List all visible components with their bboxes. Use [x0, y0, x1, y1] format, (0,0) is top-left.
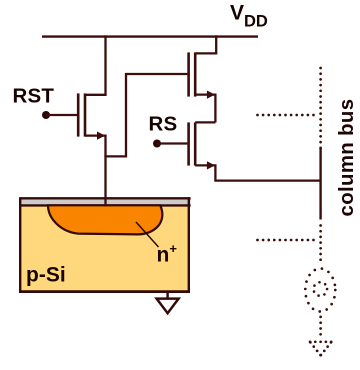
current source I_bias outer dotted circle: [305, 269, 335, 312]
transistor M3 gate bar: [187, 122, 190, 165]
dotted row wire (upper): [258, 114, 320, 117]
substrate left border: [19, 197, 21, 292]
transistor M2 (source follower) gate bar: [187, 52, 190, 96]
wire: rail to M1 drain: [85, 35, 106, 94]
VDD rail: [42, 35, 258, 37]
svg-text:RS: RS: [149, 113, 178, 136]
svg-text:p-Si: p-Si: [26, 264, 66, 287]
column bus dotted wire (top): [319, 68, 322, 148]
oxide top line: [20, 197, 190, 199]
transistor M2 channel bar: [194, 52, 197, 96]
column bus dotted wire (middle): [319, 226, 322, 266]
dotted row wire (lower): [258, 239, 320, 242]
transistor M1 (RST reset) gate bar: [77, 93, 80, 136]
ground stub: [166, 292, 168, 298]
n+ diffusion region: [48, 205, 162, 234]
dotted arrowhead at bus bottom: [310, 342, 331, 355]
svg-text:VDD: VDD: [230, 2, 268, 31]
substrate right border: [188, 197, 190, 292]
wire: RS gate: [157, 142, 187, 144]
transistor M1 channel bar: [84, 93, 87, 136]
transistor M2 source arrow: [207, 91, 215, 99]
column bus solid segment: [319, 148, 321, 220]
ground symbol: [157, 299, 179, 314]
node dot RST gate: [42, 111, 50, 119]
oxide bottom line: [20, 204, 190, 206]
wire: RST gate: [46, 114, 77, 116]
transistor M2 drain wire to rail: [195, 35, 216, 53]
current source inner dotted circle: [314, 282, 328, 296]
wire: photodiode node to M2 gate: [104, 74, 187, 156]
transistor M1 source arrow: [97, 132, 105, 140]
p-Si substrate body: [20, 206, 189, 291]
svg-text:column bus: column bus: [336, 99, 358, 217]
transistor M2 source wire: [195, 95, 215, 123]
oxide layer: [20, 199, 190, 204]
substrate bottom line: [19, 290, 190, 293]
dotted wire below current source: [319, 317, 322, 335]
transistor M3 channel bar: [194, 122, 197, 165]
svg-text:RST: RST: [13, 85, 55, 108]
node dot RS gate: [153, 140, 161, 148]
n+ leader line: [136, 222, 159, 247]
transistor M3 (RS row select) drain wire: [195, 121, 215, 123]
transistor M3 source arrow: [207, 161, 215, 169]
transistor M3 source wire to column bus: [195, 165, 320, 180]
transistor M1 source wire down to photodiode: [85, 136, 106, 207]
